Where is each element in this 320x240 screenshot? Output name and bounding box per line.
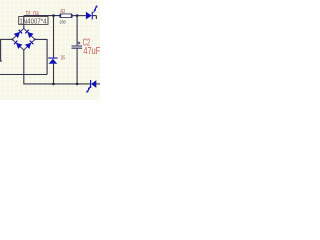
wire top rail left segment xyxy=(24,15,60,17)
junction D5 bottom xyxy=(52,83,55,86)
diode bridge top-right D2 xyxy=(25,29,34,38)
capacitor C2 xyxy=(72,42,83,49)
wire D5 top lead xyxy=(53,16,55,58)
diode D5 xyxy=(48,58,57,64)
junction D5 top xyxy=(52,14,55,17)
wire D5 bottom lead xyxy=(53,64,55,84)
svg-text:200: 200 xyxy=(60,19,67,25)
wire R2 right to LED xyxy=(72,15,86,17)
wire C2 bottom lead xyxy=(76,49,78,84)
wire bottom LED right stub xyxy=(96,83,100,85)
value box 1N4007*4 xyxy=(19,17,48,26)
junction C2 bottom xyxy=(76,83,79,86)
LED D6 top right xyxy=(86,5,99,20)
svg-text:R2: R2 xyxy=(61,9,66,15)
diode bridge bottom-right D4 xyxy=(25,40,34,49)
wire C2 top lead xyxy=(76,16,78,46)
diode bridge top-left D1 xyxy=(14,29,23,38)
wire bridge bottom to minus rail xyxy=(24,50,90,84)
junction C2 top xyxy=(76,14,79,17)
wire LED right with stub down xyxy=(93,16,97,19)
wire bridge right, corner down xyxy=(35,39,47,74)
junction bridge left apex xyxy=(11,38,13,40)
diode bridge bottom-left D3 xyxy=(13,40,22,49)
wire AC left input xyxy=(0,38,12,40)
wire bridge top vertical xyxy=(23,16,25,29)
junction bridge right apex xyxy=(34,38,36,40)
svg-text:D1..D4: D1..D4 xyxy=(26,11,39,18)
svg-text:D5: D5 xyxy=(61,55,66,61)
wire left edge stub xyxy=(1,39,2,61)
wire AC bottom rail xyxy=(0,74,47,76)
svg-text:47uF: 47uF xyxy=(83,45,100,56)
resistor R2 body xyxy=(60,14,72,18)
LED D7 bottom right xyxy=(85,80,96,94)
bridge diamond outline xyxy=(12,28,35,50)
